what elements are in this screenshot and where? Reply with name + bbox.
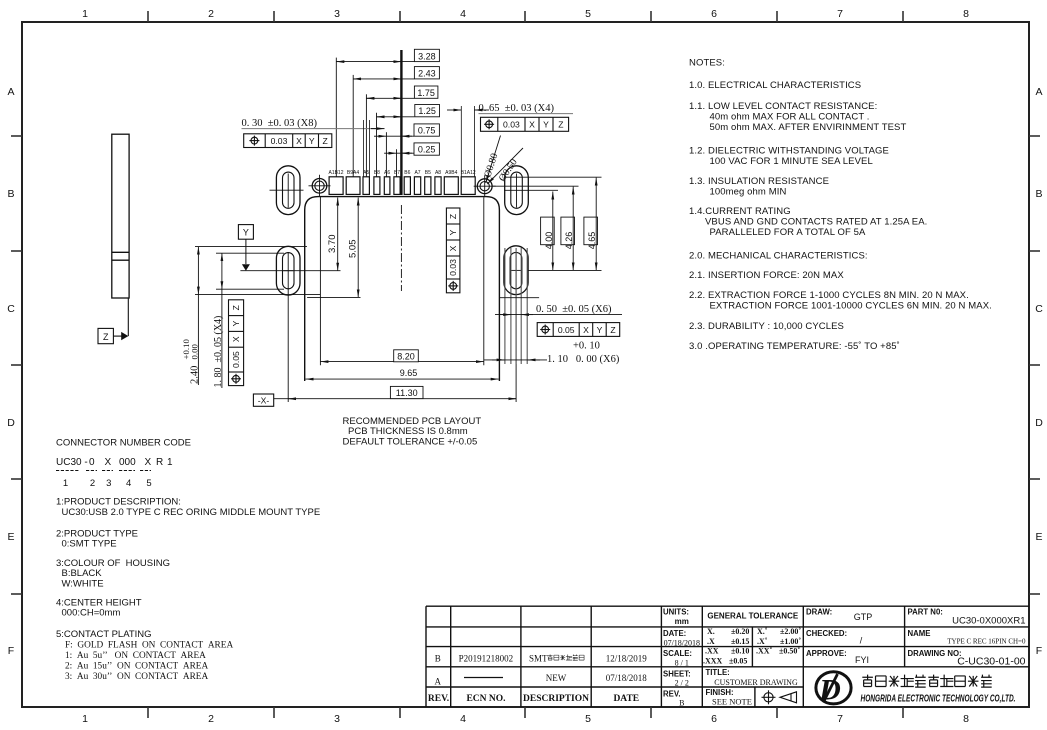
svg-text:3: 3: [334, 713, 340, 725]
svg-text:X: X: [145, 457, 152, 468]
svg-text:EXTRACTION FORCE 1001-10000 CY: EXTRACTION FORCE 1001-10000 CYCLES 6N MI…: [710, 300, 992, 311]
svg-text:NOTES:: NOTES:: [689, 58, 725, 69]
svg-text:±0.20: ±0.20: [731, 627, 749, 636]
svg-text:SEE NOTE: SEE NOTE: [712, 696, 752, 706]
svg-text:A: A: [435, 677, 442, 687]
svg-text:0.03: 0.03: [503, 120, 520, 130]
units cell: [663, 608, 689, 627]
svg-text:2.2. EXTRACTION FORCE 1-1000 C: 2.2. EXTRACTION FORCE 1-1000 CYCLES 8N M…: [689, 290, 969, 301]
svg-text:2: 2: [208, 713, 214, 725]
svg-text:Z: Z: [558, 120, 563, 130]
svg-text:A8: A8: [435, 170, 441, 176]
svg-text:2.0. MECHANICAL CHARACTERISTIC: 2.0. MECHANICAL CHARACTERISTICS:: [689, 251, 868, 262]
svg-text:±2.00˚: ±2.00˚: [780, 627, 801, 636]
svg-text:X.: X.: [707, 627, 715, 636]
svg-text:1. 80 ±0. 05 (X4): 1. 80 ±0. 05 (X4): [213, 316, 224, 388]
slot mid-left: [276, 246, 300, 402]
svg-text:.XXX: .XXX: [703, 656, 723, 665]
svg-text:FYI: FYI: [855, 655, 869, 665]
date cell: [663, 629, 700, 647]
svg-text:HONGRIDA ELECTRONIC TECHNOLOGY: HONGRIDA ELECTRONIC TECHNOLOGY CO,LTD.: [861, 693, 1016, 705]
svg-text:±0.05: ±0.05: [729, 656, 747, 665]
datum Y: [238, 225, 253, 271]
draw cell: [806, 608, 872, 623]
svg-text:B1A12: B1A12: [461, 170, 476, 176]
svg-text:1.2. DIELECTRIC WITHSTANDING V: 1.2. DIELECTRIC WITHSTANDING VOLTAGE: [689, 146, 889, 157]
svg-text:NAME: NAME: [908, 629, 931, 638]
svg-text:SMT: SMT: [529, 654, 548, 664]
dimension 0.30 X8: [242, 118, 385, 177]
svg-text:B8: B8: [374, 170, 380, 176]
svg-text:3: Au 30u’’ ON CONTACT AR: 3: Au 30u’’ ON CONTACT AREA: [65, 672, 208, 682]
svg-text:1: 1: [167, 457, 173, 468]
svg-text:40m ohm MAX FOR ALL CONTACT .: 40m ohm MAX FOR ALL CONTACT .: [710, 111, 870, 122]
svg-text:9.65: 9.65: [400, 368, 418, 378]
notes block: [689, 58, 992, 353]
svg-text:UNITS:: UNITS:: [663, 608, 689, 617]
dimension 4.26: [561, 187, 575, 271]
svg-text:B5: B5: [425, 170, 431, 176]
svg-text:2 / 2: 2 / 2: [675, 679, 689, 688]
svg-text:0:SMT TYPE: 0:SMT TYPE: [62, 539, 117, 550]
svg-text:A6: A6: [384, 170, 390, 176]
svg-text:TYPE C REC 16PIN CH=0: TYPE C REC 16PIN CH=0: [947, 638, 1026, 646]
svg-text:X: X: [448, 245, 458, 251]
svg-text:2.1. INSERTION FORCE: 20N MAX: 2.1. INSERTION FORCE: 20N MAX: [689, 270, 844, 281]
svg-text:W:WHITE: W:WHITE: [62, 579, 104, 590]
general tolerance: [703, 612, 801, 666]
svg-text:DRAWING NO:: DRAWING NO:: [908, 649, 962, 658]
svg-text:0. 30 ±0. 03 (X8): 0. 30 ±0. 03 (X8): [242, 118, 318, 129]
connector center line: [400, 50, 402, 291]
svg-text:NEW: NEW: [546, 673, 567, 683]
svg-text:1:PRODUCT DESCRIPTION:: 1:PRODUCT DESCRIPTION:: [56, 497, 181, 508]
svg-text:UC30-0X000XR1: UC30-0X000XR1: [952, 615, 1025, 626]
svg-text:4.00: 4.00: [544, 232, 554, 250]
svg-text:A: A: [1035, 86, 1042, 98]
svg-text:DESCRIPTION: DESCRIPTION: [523, 694, 589, 704]
svg-text:5: 5: [585, 8, 591, 20]
side view: [112, 134, 129, 298]
dimension 1.10 X6: [484, 341, 620, 366]
svg-text:B: B: [679, 699, 684, 708]
svg-text:07/18/2018: 07/18/2018: [664, 638, 700, 647]
svg-text:UC30:USB 2.0 TYPE C REC ORING: UC30:USB 2.0 TYPE C REC ORING MIDDLE MOU…: [62, 507, 321, 518]
svg-text:0.05: 0.05: [558, 325, 575, 335]
svg-text:Z: Z: [231, 305, 241, 310]
svg-text:1.75: 1.75: [417, 88, 435, 98]
dimension 1.80: [216, 253, 284, 388]
gdt frame 0.30: [244, 134, 332, 148]
pin labels: [328, 170, 475, 176]
svg-text:Y: Y: [448, 229, 458, 235]
svg-text:8: 8: [963, 713, 969, 725]
svg-text:D: D: [7, 417, 15, 429]
hole right: [474, 175, 496, 197]
dimension 3.28: [336, 49, 439, 176]
svg-text:A: A: [7, 86, 14, 98]
svg-text:GENERAL TOLERANCE: GENERAL TOLERANCE: [707, 612, 798, 621]
svg-text:4: 4: [126, 478, 131, 489]
svg-text:B7: B7: [394, 170, 400, 176]
svg-text:1.4.CURRENT RATING: 1.4.CURRENT RATING: [689, 206, 791, 217]
recommended pcb layout note: [343, 416, 482, 448]
svg-text:DRAW:: DRAW:: [806, 608, 832, 617]
svg-text:P20191218002: P20191218002: [459, 654, 514, 664]
svg-text:0. 65 ±0. 03 (X4): 0. 65 ±0. 03 (X4): [479, 103, 555, 114]
svg-text:DATE: DATE: [613, 694, 639, 704]
svg-text:1.3. INSULATION RESISTANCE: 1.3. INSULATION RESISTANCE: [689, 176, 829, 187]
svg-text:F: F: [1036, 645, 1042, 657]
dimension 2.40: [195, 247, 320, 385]
svg-text:1: 1: [63, 478, 68, 489]
svg-text:B: B: [1035, 188, 1042, 200]
svg-text:DATE:: DATE:: [663, 629, 686, 638]
svg-text:DEFAULT TOLERANCE +/-0.05: DEFAULT TOLERANCE +/-0.05: [343, 437, 478, 448]
dimension 4.65: [584, 178, 598, 271]
drawing no cell: [908, 649, 1026, 667]
svg-text:Z: Z: [322, 136, 327, 146]
svg-text:0.03: 0.03: [271, 136, 288, 146]
svg-text:1.0. ELECTRICAL CHARACTERISTIC: 1.0. ELECTRICAL CHARACTERISTICS: [689, 80, 861, 91]
svg-text:CUSTOMER DRAWING: CUSTOMER DRAWING: [714, 678, 798, 687]
title cell: [706, 668, 798, 687]
svg-text:5:CONTACT PLATING: 5:CONTACT PLATING: [56, 629, 152, 640]
svg-text:+0. 10: +0. 10: [573, 341, 600, 352]
pad row: [329, 177, 475, 195]
name cell: [908, 629, 1026, 646]
svg-text:ECN NO.: ECN NO.: [466, 694, 505, 704]
svg-text:12/18/2019: 12/18/2019: [606, 654, 648, 664]
svg-text:3.28: 3.28: [418, 51, 436, 61]
svg-text:±0.50˚: ±0.50˚: [779, 647, 800, 656]
dimension 4.00: [541, 192, 555, 271]
svg-text:3.0 .OPERATING TEMPERATURE: -5: 3.0 .OPERATING TEMPERATURE: -55˚ TO +85˚: [689, 341, 900, 352]
svg-text:PART N0:: PART N0:: [908, 608, 943, 617]
svg-text:SHEET:: SHEET:: [663, 669, 691, 678]
svg-text:APPROVE:: APPROVE:: [806, 649, 847, 658]
svg-text:2: 2: [90, 478, 95, 489]
svg-text:6: 6: [711, 8, 717, 20]
contact legs: [505, 248, 527, 364]
svg-text:TITLE:: TITLE:: [706, 668, 730, 677]
svg-text:Z: Z: [103, 332, 109, 342]
dimension 3.70: [337, 198, 339, 271]
svg-text:.X˚: .X˚: [757, 637, 768, 646]
hole diameter leaders: [486, 136, 523, 185]
svg-text:.XX: .XX: [705, 647, 719, 656]
gdt frame left vertical: [229, 300, 244, 386]
svg-text:2: 2: [208, 8, 214, 20]
dimension 2.43: [353, 67, 439, 177]
svg-text:4.26: 4.26: [564, 232, 574, 250]
svg-text:0.00: 0.00: [190, 344, 200, 360]
svg-text:X.˚: X.˚: [757, 627, 768, 636]
svg-text:6: 6: [711, 713, 717, 725]
svg-text:D: D: [1035, 417, 1043, 429]
svg-text:1. 10 0. 00 (X6): 1. 10 0. 00 (X6): [547, 354, 620, 365]
svg-text:X: X: [529, 120, 535, 130]
svg-text:1.1. LOW LEVEL CONTACT RESISTA: 1.1. LOW LEVEL CONTACT RESISTANCE:: [689, 101, 877, 112]
ref line right 297: [499, 297, 539, 299]
svg-text:±0.10: ±0.10: [731, 647, 749, 656]
svg-text:7: 7: [837, 713, 843, 725]
revision row A: [435, 673, 648, 687]
svg-text:CHECKED:: CHECKED:: [806, 629, 847, 638]
svg-text:100meg ohm MIN: 100meg ohm MIN: [710, 186, 787, 197]
hole left: [309, 175, 331, 197]
datum X box: [253, 394, 273, 406]
svg-text:Z: Z: [610, 325, 615, 335]
ref line hole center right: [492, 185, 578, 187]
svg-text:Z: Z: [448, 214, 458, 219]
projection symbol: [762, 690, 797, 704]
svg-text:7: 7: [837, 8, 843, 20]
dimension 11.30: [274, 386, 517, 398]
svg-text:8 / 1: 8 / 1: [675, 658, 689, 667]
part no cell: [908, 608, 1026, 627]
svg-text:4.65: 4.65: [587, 232, 597, 250]
svg-text:2: Au 15u’’ ON CONTACT AR: 2: Au 15u’’ ON CONTACT AREA: [65, 662, 208, 672]
gdt frame center vertical: [446, 208, 460, 293]
svg-text:07/18/2018: 07/18/2018: [606, 673, 648, 683]
svg-text:C-UC30-01-00: C-UC30-01-00: [957, 655, 1025, 667]
svg-text:50m ohm MAX. AFTER ENVIRINMENT: 50m ohm MAX. AFTER ENVIRINMENT TEST: [710, 122, 907, 133]
svg-text:000:CH=0mm: 000:CH=0mm: [62, 608, 121, 619]
connector number code block: [56, 438, 320, 683]
svg-text:0.75: 0.75: [418, 126, 436, 136]
svg-text:Y: Y: [309, 136, 315, 146]
svg-text:B: B: [435, 654, 441, 664]
svg-text:REV.: REV.: [663, 690, 680, 699]
svg-text:mm: mm: [675, 617, 689, 626]
svg-text:PCB THICKNESS IS 0.8mm: PCB THICKNESS IS 0.8mm: [348, 426, 468, 437]
svg-text:X: X: [583, 325, 589, 335]
dimension 0.65 X4: [447, 103, 573, 177]
svg-text:1.25: 1.25: [418, 106, 436, 116]
svg-text:.XX˚: .XX˚: [756, 647, 773, 656]
svg-text:3: 3: [334, 8, 340, 20]
gdt frame 0.50: [537, 323, 620, 337]
svg-text:Y: Y: [597, 325, 603, 335]
svg-text:CONNECTOR NUMBER CODE: CONNECTOR NUMBER CODE: [56, 438, 191, 449]
svg-text:1: 1: [82, 8, 88, 20]
svg-text:-X-: -X-: [258, 395, 270, 405]
dimension 8.20: [320, 197, 483, 365]
svg-text:X: X: [105, 457, 112, 468]
svg-text:4: 4: [460, 713, 466, 725]
svg-text:.X: .X: [707, 637, 715, 646]
svg-text:Y: Y: [243, 228, 249, 238]
svg-text:5.05: 5.05: [347, 240, 358, 259]
slot mid-right: [504, 246, 528, 402]
svg-text:C: C: [1035, 303, 1043, 315]
svg-text:8.20: 8.20: [397, 351, 415, 361]
svg-text:1: 1: [82, 713, 88, 725]
company logo: [816, 672, 851, 707]
dimension 0.75: [374, 124, 439, 177]
revision row B: [435, 654, 648, 664]
svg-text:±0.15: ±0.15: [731, 637, 749, 646]
scale cell: [663, 649, 692, 667]
dimension 5.05: [307, 198, 360, 298]
slot top-right: [504, 166, 558, 215]
svg-text:REV.: REV.: [428, 694, 449, 704]
company chinese name: [862, 675, 991, 688]
svg-text:3: 3: [106, 478, 111, 489]
svg-text:F: F: [8, 645, 14, 657]
svg-text:0. 50 ±0. 05 (X6): 0. 50 ±0. 05 (X6): [536, 304, 612, 315]
svg-text:A7: A7: [414, 170, 420, 176]
svg-text:GTP: GTP: [854, 612, 873, 622]
svg-text:B:BLACK: B:BLACK: [62, 568, 103, 579]
datum Z: [98, 298, 128, 344]
svg-text:2.3. DURABILITY : 10,000 CYCLE: 2.3. DURABILITY : 10,000 CYCLES: [689, 321, 844, 332]
svg-text:100 VAC FOR 1 MINUTE SEA LEVEL: 100 VAC FOR 1 MINUTE SEA LEVEL: [710, 156, 873, 167]
title block grid: [426, 606, 1029, 707]
svg-text:2.40: 2.40: [190, 366, 201, 384]
svg-text:1: Au 5u’’ ON CONTACT AR: 1: Au 5u’’ ON CONTACT AREA: [65, 651, 206, 661]
svg-text:B: B: [7, 188, 14, 200]
revision table header: [428, 694, 639, 704]
seating plane line right: [528, 269, 601, 271]
svg-text:A9B4: A9B4: [445, 170, 457, 176]
svg-text:RECOMMENDED PCB LAYOUT: RECOMMENDED PCB LAYOUT: [343, 416, 482, 427]
svg-text:0.25: 0.25: [418, 145, 436, 155]
svg-text:B6: B6: [404, 170, 410, 176]
svg-text:X: X: [296, 136, 302, 146]
approve cell: [806, 649, 869, 665]
svg-text:R: R: [156, 457, 163, 468]
dimension 1.75: [366, 86, 438, 177]
slot center line left: [240, 270, 340, 272]
dimension 0.25: [384, 143, 439, 177]
svg-text:UC30 -: UC30 -: [56, 457, 88, 468]
svg-text:0.03: 0.03: [448, 259, 458, 276]
checked cell: [806, 629, 863, 646]
svg-text:2.43: 2.43: [418, 69, 436, 79]
svg-text:3.70: 3.70: [327, 235, 338, 254]
svg-text:11.30: 11.30: [396, 388, 418, 398]
svg-text:0.05: 0.05: [231, 351, 241, 368]
svg-text:E: E: [7, 531, 14, 543]
svg-text:VBUS AND GND CONTACTS RATED AT: VBUS AND GND CONTACTS RATED AT 1.25A EA.: [705, 216, 927, 227]
connector body outline: [305, 197, 500, 381]
svg-text:5: 5: [146, 478, 151, 489]
svg-text:8: 8: [963, 8, 969, 20]
svg-text:X: X: [231, 336, 241, 342]
svg-text:F: GOLD FLASH ON CONTACT: F: GOLD FLASH ON CONTACT AREA: [65, 641, 233, 651]
svg-text:Y: Y: [543, 120, 549, 130]
sheet cell: [663, 669, 691, 687]
rev cell: [663, 690, 684, 708]
svg-text:5: 5: [585, 713, 591, 725]
svg-text:PARALLELED FOR A TOTAL OF 5A: PARALLELED FOR A TOTAL OF 5A: [710, 227, 866, 238]
gdt frame 0.65: [481, 117, 569, 131]
ref line pad top right: [504, 176, 602, 178]
dimension 9.65: [306, 378, 499, 380]
finish cell: [706, 688, 752, 707]
svg-text:C: C: [7, 303, 15, 315]
slot top-left: [270, 166, 304, 215]
dimension 1.25: [377, 105, 440, 177]
svg-text:±1.00˚: ±1.00˚: [780, 637, 801, 646]
svg-text:0: 0: [89, 457, 95, 468]
dimension 0.50 X6: [495, 304, 622, 315]
svg-text:Y: Y: [231, 320, 241, 326]
svg-text:4: 4: [460, 8, 466, 20]
svg-text:E: E: [1035, 531, 1042, 543]
svg-text:SCALE:: SCALE:: [663, 649, 692, 658]
svg-text:000: 000: [119, 457, 136, 468]
